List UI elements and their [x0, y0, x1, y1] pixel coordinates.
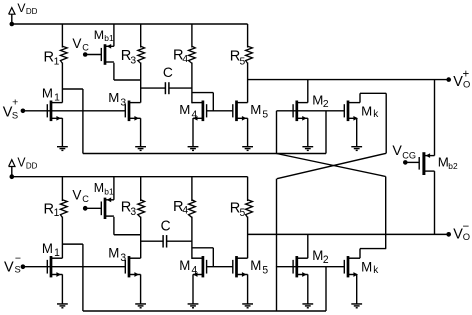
transistor Mk (upper half) [344, 101, 360, 122]
svg-text:M: M [312, 93, 323, 108]
transistor Mb2 [419, 152, 434, 175]
wire input to gates of M1 and M3 (upper half) [23, 110, 125, 112]
wire cross-coupling horizontal (upper half) [83, 153, 326, 155]
svg-text:DD: DD [26, 7, 38, 16]
transistor M5 (lower half) [233, 256, 248, 277]
svg-text:5: 5 [240, 208, 246, 219]
svg-text:M: M [108, 245, 119, 260]
svg-text:M: M [438, 154, 449, 169]
label M3 (lower half) [108, 245, 126, 264]
transistor Mk (lower half) [344, 256, 360, 277]
svg-text:M: M [312, 248, 323, 263]
label M4 (upper half) [179, 102, 197, 120]
svg-text:M: M [108, 90, 119, 105]
wire Mb1 drain to R3 node (lower half) [114, 217, 141, 235]
label R4 (lower half) [173, 199, 188, 217]
wire M4 gate to M5 gate (lower half) [207, 266, 233, 268]
svg-text:5: 5 [240, 56, 246, 67]
label VCG [392, 143, 416, 160]
label C (lower half) [161, 217, 171, 233]
wire cross-coupling horizontal (lower half) [83, 310, 326, 312]
svg-text:M: M [361, 259, 372, 274]
svg-text:M: M [361, 103, 372, 118]
input node VS (upper half) [21, 109, 26, 114]
VDD supply symbol (upper half) [9, 8, 15, 27]
resistor R4 (lower half) [189, 177, 196, 259]
capacitor C (lower half) [141, 235, 192, 247]
svg-text:1: 1 [54, 57, 60, 68]
svg-text:CG: CG [402, 150, 416, 160]
svg-text:3: 3 [130, 56, 136, 67]
label R5 (lower half) [230, 200, 246, 219]
ground below Mk (lower half) [351, 274, 362, 307]
svg-text:+: + [12, 96, 18, 108]
ground below M4 (upper half) [188, 118, 199, 150]
ground below M2 (upper half) [302, 118, 313, 150]
svg-text:S: S [12, 110, 18, 121]
wire M2 Mk gate rail (lower half) [277, 267, 345, 311]
bias input VC (upper half) [83, 52, 101, 57]
svg-text:M: M [42, 241, 53, 256]
svg-text:S: S [15, 264, 21, 275]
svg-text:O: O [463, 78, 470, 89]
svg-text:M: M [179, 258, 190, 273]
resistor R1 (upper half) [60, 24, 67, 103]
wire M1 source to ground (lower half) [61, 273, 63, 275]
svg-text:1: 1 [54, 208, 60, 219]
label M2 (upper half) [312, 93, 329, 111]
label Mb1 (lower half) [94, 181, 114, 197]
input node VS (lower half) [21, 264, 26, 269]
label R1 (lower half) [44, 201, 60, 219]
svg-text:C: C [161, 217, 171, 233]
wire Mb2 source to negative output [434, 171, 436, 234]
ground below M5 (lower half) [242, 274, 253, 307]
wire M4 gate to M5 gate (upper half) [207, 110, 233, 112]
transistor Mb1 (upper half) [101, 44, 114, 65]
wire M2 drain to output (lower half) [307, 234, 309, 258]
resistor R1 (lower half) [60, 177, 67, 259]
svg-text:b2: b2 [448, 161, 458, 171]
svg-text:3: 3 [120, 253, 126, 264]
transistor M3 (upper half) [125, 101, 140, 122]
svg-text:C: C [82, 194, 89, 204]
ground below M1 (lower half) [57, 274, 68, 307]
bias input VCG [403, 160, 419, 165]
transistor Mb1 (lower half) [101, 197, 114, 219]
transistor M2 (upper half) [293, 101, 308, 122]
wire cross-coupling diagonal A (upper node to lower Mk drain) [277, 154, 386, 177]
ground below M2 (lower half) [302, 274, 313, 307]
svg-text:4: 4 [182, 54, 188, 65]
svg-text:b1: b1 [104, 33, 114, 43]
wire M2 drain to output (upper half) [307, 80, 309, 103]
label M1 (upper half) [42, 85, 60, 103]
transistor M4 (upper half) [192, 101, 207, 122]
label VC (lower half) [72, 186, 89, 204]
wire M4 gate-drain loop (lower half) [192, 248, 213, 267]
wire Mb1 drain to R3 node (upper half) [114, 63, 141, 80]
ground below M3 (lower half) [135, 274, 146, 307]
svg-text:5: 5 [262, 265, 268, 276]
wire Mb1 source to VDD rail (upper half) [113, 24, 115, 46]
svg-text:k: k [373, 265, 379, 276]
ground below M1 (upper half) [57, 118, 68, 150]
wire Mk drain step (lower half) [360, 249, 386, 259]
wire diagonal B vertical to lower M2 Mk gates [276, 179, 278, 267]
resistor R5 (upper half) [246, 24, 253, 103]
svg-text:1: 1 [54, 93, 60, 104]
label R4 (upper half) [173, 47, 188, 65]
label Mk (lower half) [361, 259, 379, 276]
transistor M4 (lower half) [192, 256, 207, 277]
label Mb1 (upper half) [94, 28, 114, 43]
svg-text:3: 3 [130, 207, 136, 218]
label M5 (upper half) [250, 102, 268, 120]
resistor R3 (upper half) [138, 24, 145, 103]
wire M4 source to ground (upper half) [192, 117, 194, 119]
wire M1 source to ground (upper half) [61, 117, 63, 119]
svg-text:O: O [463, 231, 470, 242]
label R1 (upper half) [44, 50, 60, 68]
transistor M5 (upper half) [233, 101, 248, 122]
wire input to gates of M1 and M3 (lower half) [23, 266, 125, 268]
label R5 (upper half) [230, 49, 246, 68]
transistor M1 (lower half) [47, 256, 62, 277]
label VS- input [4, 252, 21, 275]
label VS+ input [3, 96, 18, 120]
label Mk (upper half) [361, 103, 379, 120]
transistor M2 (lower half) [293, 256, 308, 277]
svg-text:2: 2 [323, 255, 329, 266]
wire cross-coupling diagonal B (upper Mk drain to lower node) [277, 153, 386, 178]
resistor R4 (upper half) [189, 24, 196, 103]
label VO- output [453, 221, 470, 242]
label R3 (lower half) [121, 199, 136, 218]
transistor M3 (lower half) [125, 256, 140, 277]
capacitor C (upper half) [141, 82, 192, 94]
svg-text:−: − [15, 252, 21, 264]
resistor R3 (lower half) [138, 177, 145, 259]
wire M2 Mk gate rail (upper half) [277, 111, 345, 154]
label VDD (upper half) [17, 1, 37, 16]
ground below Mk (upper half) [351, 118, 362, 150]
svg-text:M: M [250, 102, 261, 117]
label VO+ output [453, 69, 470, 90]
label VDD (lower half) [17, 156, 37, 171]
svg-text:V: V [392, 143, 402, 159]
resistor R5 (lower half) [246, 177, 253, 259]
label M4 (lower half) [179, 258, 197, 277]
bias input VC (lower half) [83, 206, 101, 211]
svg-text:V: V [72, 36, 81, 51]
ground below M4 (lower half) [188, 274, 199, 307]
output wire (lower half) [248, 232, 451, 237]
VDD supply symbol (lower half) [9, 160, 15, 179]
svg-text:C: C [82, 42, 89, 52]
wire Mk drain step (upper half) [360, 93, 386, 102]
label VC (upper half) [72, 36, 89, 53]
svg-text:M: M [179, 102, 190, 117]
wire M4 gate-drain loop (upper half) [192, 93, 213, 111]
VDD rail wire (lower half) [12, 176, 248, 178]
wire M1 drain node to cross-coupling (lower half) [62, 244, 83, 311]
ground below M5 (upper half) [242, 118, 253, 150]
wire Mb1 source to VDD rail (lower half) [113, 177, 115, 200]
wire diagonal A vertical to lower Mk drain [385, 177, 387, 249]
svg-text:2: 2 [323, 99, 329, 110]
svg-text:DD: DD [26, 162, 38, 171]
VDD rail wire (upper half) [12, 23, 248, 25]
wire M1 drain node to cross-coupling (upper half) [62, 89, 83, 154]
label M3 (upper half) [108, 90, 126, 108]
svg-text:1: 1 [54, 248, 60, 259]
transistor M1 (upper half) [47, 101, 62, 122]
svg-text:3: 3 [120, 97, 126, 108]
svg-text:4: 4 [182, 205, 188, 216]
label R3 (upper half) [121, 48, 137, 67]
label Mb2 [438, 154, 458, 170]
svg-text:M: M [94, 28, 104, 42]
label M2 (lower half) [312, 248, 328, 266]
svg-text:5: 5 [262, 109, 268, 120]
output wire (upper half) [248, 77, 451, 82]
label M1 (lower half) [42, 241, 60, 260]
wire M4 source to ground (lower half) [192, 273, 194, 275]
label C (upper half) [163, 65, 173, 80]
svg-text:C: C [163, 65, 173, 80]
svg-text:M: M [42, 85, 53, 100]
svg-text:b1: b1 [104, 186, 114, 196]
wire Mb2 drain to positive output [434, 80, 436, 156]
svg-text:V: V [72, 186, 82, 202]
svg-text:M: M [250, 258, 261, 273]
svg-text:V: V [4, 259, 14, 275]
svg-text:M: M [94, 181, 104, 195]
label M5 (lower half) [250, 258, 268, 277]
ground below M3 (upper half) [135, 118, 146, 150]
wire upper Mk drain down to diagonal [385, 93, 387, 153]
svg-text:R: R [44, 50, 55, 66]
